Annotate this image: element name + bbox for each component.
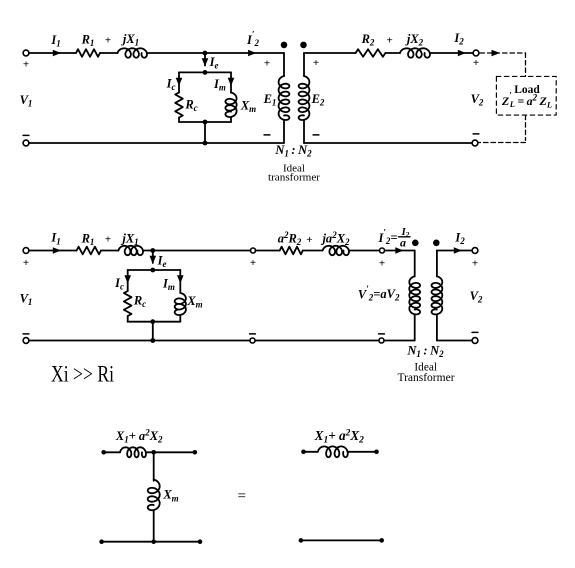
svg-text:I′2=: I′2=	[377, 228, 397, 247]
svg-text:N1 : N2: N1 : N2	[406, 344, 444, 360]
svg-text:Rc: Rc	[184, 98, 197, 114]
svg-text:Rc: Rc	[133, 294, 146, 310]
svg-text:+: +	[473, 57, 479, 69]
svg-text:Xm: Xm	[240, 98, 256, 114]
svg-text:=: =	[237, 489, 245, 505]
svg-text:Im: Im	[213, 77, 226, 93]
svg-text:E2: E2	[311, 92, 325, 108]
svg-text:R1: R1	[81, 33, 95, 49]
svg-text:Xi >> Ri: Xi >> Ri	[51, 361, 114, 386]
svg-text:V1: V1	[20, 93, 33, 109]
svg-text:a2R2: a2R2	[278, 230, 302, 247]
svg-text:+: +	[23, 59, 29, 71]
svg-text:ja2X2: ja2X2	[320, 230, 350, 247]
svg-text:I2: I2	[453, 31, 464, 47]
svg-text:jX2: jX2	[405, 32, 424, 48]
svg-text:Ie: Ie	[209, 55, 219, 71]
svg-text:R1: R1	[81, 232, 95, 248]
svg-text:Xm: Xm	[162, 488, 178, 504]
svg-text:a: a	[400, 235, 406, 249]
svg-text:+: +	[105, 35, 111, 47]
svg-text:Transformer: Transformer	[397, 372, 454, 384]
svg-text:I′2: I′2	[246, 30, 259, 49]
svg-text:V1: V1	[20, 292, 33, 308]
svg-text:+: +	[386, 35, 392, 47]
svg-text:R2: R2	[361, 32, 375, 48]
svg-text:+: +	[379, 258, 385, 270]
svg-text:+: +	[250, 257, 256, 269]
svg-text:+: +	[105, 234, 111, 246]
svg-text:jX1: jX1	[120, 232, 138, 248]
svg-text:Ic: Ic	[166, 77, 176, 93]
svg-text:V2: V2	[470, 289, 483, 305]
svg-text:+: +	[472, 258, 478, 270]
svg-text:I2: I2	[454, 231, 465, 247]
svg-text:+: +	[313, 57, 319, 69]
svg-text:Z′L = a2 ZL: Z′L = a2 ZL	[501, 90, 552, 109]
svg-text:Im: Im	[162, 276, 175, 292]
svg-text:I1: I1	[50, 33, 60, 49]
svg-text:jX1: jX1	[121, 32, 139, 48]
svg-text:Xm: Xm	[186, 294, 202, 310]
svg-text:+: +	[23, 257, 29, 269]
svg-text:X1+ a2X2: X1+ a2X2	[115, 428, 163, 445]
svg-text:+: +	[264, 58, 270, 70]
svg-text:Ie: Ie	[157, 253, 167, 269]
svg-text:X1+ a2X2: X1+ a2X2	[314, 428, 365, 446]
svg-text:E1: E1	[263, 92, 277, 108]
svg-text:V′2=aV2: V′2=aV2	[358, 284, 400, 303]
svg-text:+: +	[306, 234, 312, 246]
svg-text:N1 : N2: N1 : N2	[274, 143, 312, 159]
svg-text:Ic: Ic	[114, 276, 124, 292]
svg-text:V2: V2	[471, 92, 484, 108]
svg-text:I1: I1	[50, 231, 60, 247]
svg-text:transformer: transformer	[268, 172, 320, 184]
